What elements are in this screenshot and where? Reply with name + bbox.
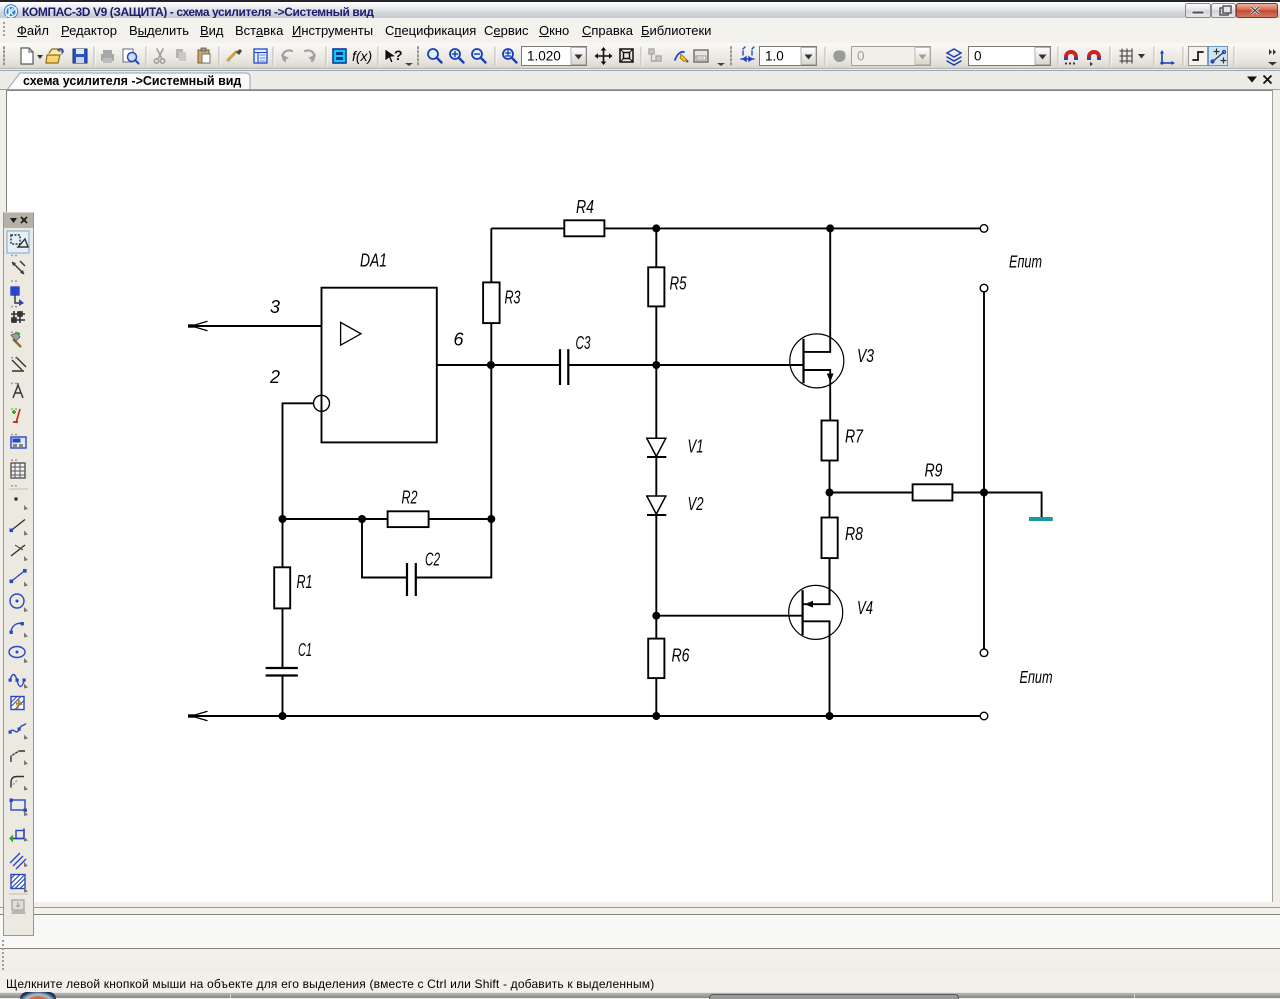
node bottom rail V4 — [826, 712, 834, 720]
tool: grid points — [11, 311, 25, 323]
start orb sliver — [20, 992, 56, 999]
tool: panel — [11, 437, 26, 448]
wire junction to R9 — [830, 492, 913, 494]
tool: line segment — [10, 569, 29, 587]
svg-text:R6: R6 — [672, 646, 691, 666]
op-amp U1 DA1 body — [322, 288, 437, 443]
tool: change — [12, 409, 20, 423]
tool: stamp (disabled) — [11, 900, 26, 914]
capacitor C3 — [560, 349, 568, 385]
tool: selection (active) — [7, 231, 29, 253]
variables blue window — [333, 49, 346, 63]
wire top rail left — [491, 227, 564, 229]
properties table — [254, 49, 267, 63]
wire R7 to junction — [829, 461, 831, 493]
undo gray — [283, 50, 292, 61]
wire pin2 to node A — [283, 403, 314, 519]
transistor V3 source arrow — [827, 374, 834, 383]
tool: bezier — [9, 724, 29, 740]
tool: hatch region — [11, 697, 24, 710]
svg-text:R5: R5 — [670, 274, 688, 294]
svg-text:R8: R8 — [845, 524, 863, 544]
transistor V4 source arrow — [805, 601, 814, 608]
node bottom rail C1 — [279, 712, 287, 720]
svg-text:C2: C2 — [425, 550, 440, 570]
ortho button — [1189, 47, 1208, 66]
resistor R6 — [648, 639, 664, 679]
wire R1 leads — [282, 519, 284, 668]
brush — [227, 49, 242, 62]
svg-text:V2: V2 — [688, 494, 704, 514]
wire R9 to right rail — [952, 492, 984, 494]
paste — [198, 48, 210, 63]
tool: helper line 2 — [11, 545, 28, 561]
layers — [947, 49, 961, 65]
resistor R8 — [822, 518, 838, 559]
wire C2 left branch — [362, 519, 407, 578]
tool: spreadsheet — [11, 463, 25, 478]
svg-text:Eпum: Eпum — [1009, 252, 1042, 272]
tab bar — [0, 70, 1280, 90]
tool: datum — [12, 261, 25, 274]
pencil sketch — [675, 52, 689, 63]
zoom combo — [522, 47, 587, 66]
print gray — [101, 50, 114, 63]
open — [46, 49, 63, 63]
window title bar — [0, 0, 1280, 18]
svg-text:R2: R2 — [402, 488, 418, 508]
terminal right rail bottom — [980, 649, 988, 657]
zoom — [428, 49, 442, 63]
help — [385, 47, 403, 63]
bottom rail arrow — [188, 711, 208, 720]
wire R8 leads — [829, 493, 831, 605]
tool: helper line — [10, 520, 29, 536]
show all frame — [620, 49, 633, 62]
terminal right rail top — [980, 284, 988, 292]
svg-text:V3: V3 — [857, 346, 874, 366]
wire top rail right — [604, 227, 980, 229]
wire output column down to C2 — [416, 365, 492, 578]
pan — [595, 47, 613, 65]
gray blob — [833, 50, 845, 62]
node bottom rail R6 — [652, 712, 660, 720]
node R2 right junction — [487, 515, 495, 523]
transistor V4 channel — [801, 590, 803, 635]
tool: ellipse — [9, 647, 28, 664]
svg-text:C1: C1 — [298, 640, 312, 660]
status bar — [0, 972, 1280, 992]
bottom property panel — [0, 902, 1280, 972]
wire C3 to V3 gate — [568, 364, 803, 366]
tool: collect contour — [9, 829, 28, 843]
svg-text:R7: R7 — [845, 427, 864, 447]
tool: chamfer — [11, 751, 28, 765]
node output junction — [487, 361, 495, 369]
wire R2 right to output column — [429, 518, 492, 520]
terminal bottom rail right — [980, 712, 988, 720]
wire op-amp output row — [437, 364, 560, 366]
tool: spline — [9, 675, 29, 689]
preview — [123, 49, 139, 64]
node C3-R5 junction — [652, 361, 660, 369]
taskbar window button sliver — [709, 994, 959, 999]
svg-text:6: 6 — [454, 330, 465, 350]
new — [21, 48, 33, 64]
transistor Q2 V4 circle — [789, 585, 843, 639]
tool: hatch fill — [11, 875, 28, 893]
pin 3 wire (non-inverting input) — [188, 321, 322, 330]
svg-text:R3: R3 — [505, 288, 521, 308]
resistor R9 — [913, 484, 953, 500]
tool: circle — [10, 594, 28, 612]
resistor R1 — [274, 567, 290, 608]
step dimension icon — [741, 47, 754, 61]
svg-text:V1: V1 — [688, 437, 704, 457]
wire feedback row — [283, 518, 388, 520]
capacitor C2 — [407, 563, 416, 596]
diode V2 — [646, 496, 667, 515]
wire R3 column — [490, 228, 492, 365]
svg-text:2: 2 — [269, 367, 280, 387]
bottom rail wire — [189, 715, 980, 717]
grid — [1120, 49, 1132, 63]
ground — [1029, 517, 1053, 521]
transistor V3 drain — [804, 228, 831, 352]
tool: fillet — [11, 777, 28, 791]
tool: arc — [10, 622, 29, 638]
svg-text:R4: R4 — [576, 197, 594, 217]
save — [73, 49, 87, 63]
node top rail V3 — [826, 224, 834, 232]
menu bar — [0, 18, 1280, 43]
wire R6 leads — [655, 616, 657, 716]
svg-text:3: 3 — [270, 297, 280, 317]
transistor V3 channel — [802, 339, 804, 384]
svg-text:V4: V4 — [857, 598, 873, 618]
resistor R4 — [564, 220, 604, 236]
capacitor C1 — [266, 668, 298, 676]
svg-text:Eпum: Eпum — [1020, 667, 1053, 687]
wire V1 anode — [655, 365, 657, 438]
node C2 left junction — [358, 515, 366, 523]
node gate row junction — [652, 612, 660, 620]
window buttons — [1185, 3, 1278, 18]
svg-text:R1: R1 — [297, 572, 313, 592]
taskbar sliver — [0, 992, 1280, 998]
gray combo — [852, 47, 931, 66]
tool: hatch lines — [10, 853, 28, 869]
resistor R5 — [648, 267, 664, 306]
wire V2 to gate row — [655, 515, 657, 616]
copy gray — [176, 49, 186, 61]
transistor V4 source — [803, 558, 830, 604]
tool: compass — [13, 383, 23, 398]
wire C1 to bottom rail — [282, 676, 284, 717]
terminal top rail right — [980, 225, 988, 233]
right rail vertical wire — [983, 292, 985, 649]
wire to ground branch — [984, 493, 1042, 518]
resistor R2 — [388, 511, 429, 527]
redo gray — [305, 50, 314, 61]
axes — [1160, 50, 1175, 65]
combo 1.0 — [760, 47, 817, 66]
transistor V3 source — [804, 370, 831, 421]
node top rail R5 — [652, 224, 660, 232]
main toolbar — [0, 43, 1280, 69]
transistor V4 gate wire — [656, 615, 802, 617]
tool: hammer — [11, 333, 21, 347]
diode V1 — [646, 438, 667, 457]
overflow — [1268, 49, 1277, 66]
magnet 1 — [1064, 50, 1078, 65]
tool: measure — [11, 287, 24, 306]
transistor Q1 V3 circle — [790, 334, 844, 388]
svg-text:R9: R9 — [925, 461, 943, 481]
transistor V4 drain — [803, 621, 830, 716]
cut gray — [154, 49, 164, 63]
svg-text:DA1: DA1 — [360, 251, 387, 271]
svg-text:C3: C3 — [576, 333, 591, 353]
resistor R3 — [483, 282, 500, 323]
tool: rectangle — [10, 799, 29, 817]
tree gray — [649, 49, 661, 61]
pin 2 inverting input circle — [314, 395, 330, 411]
left tool palette — [3, 212, 34, 936]
magnet 2 — [1087, 50, 1101, 66]
combo 0 — [969, 47, 1051, 66]
node right rail junction — [980, 489, 988, 497]
wire R5 leads — [655, 228, 657, 365]
node R7-R8-R9 junction — [826, 489, 834, 497]
tool: parallel — [12, 357, 26, 371]
tool: point — [14, 497, 28, 510]
snap button (active) — [1209, 47, 1228, 66]
node feedback A junction — [279, 515, 287, 523]
resistor R7 — [822, 421, 838, 461]
window-table — [694, 50, 708, 62]
wire V1-V2 — [655, 457, 657, 496]
